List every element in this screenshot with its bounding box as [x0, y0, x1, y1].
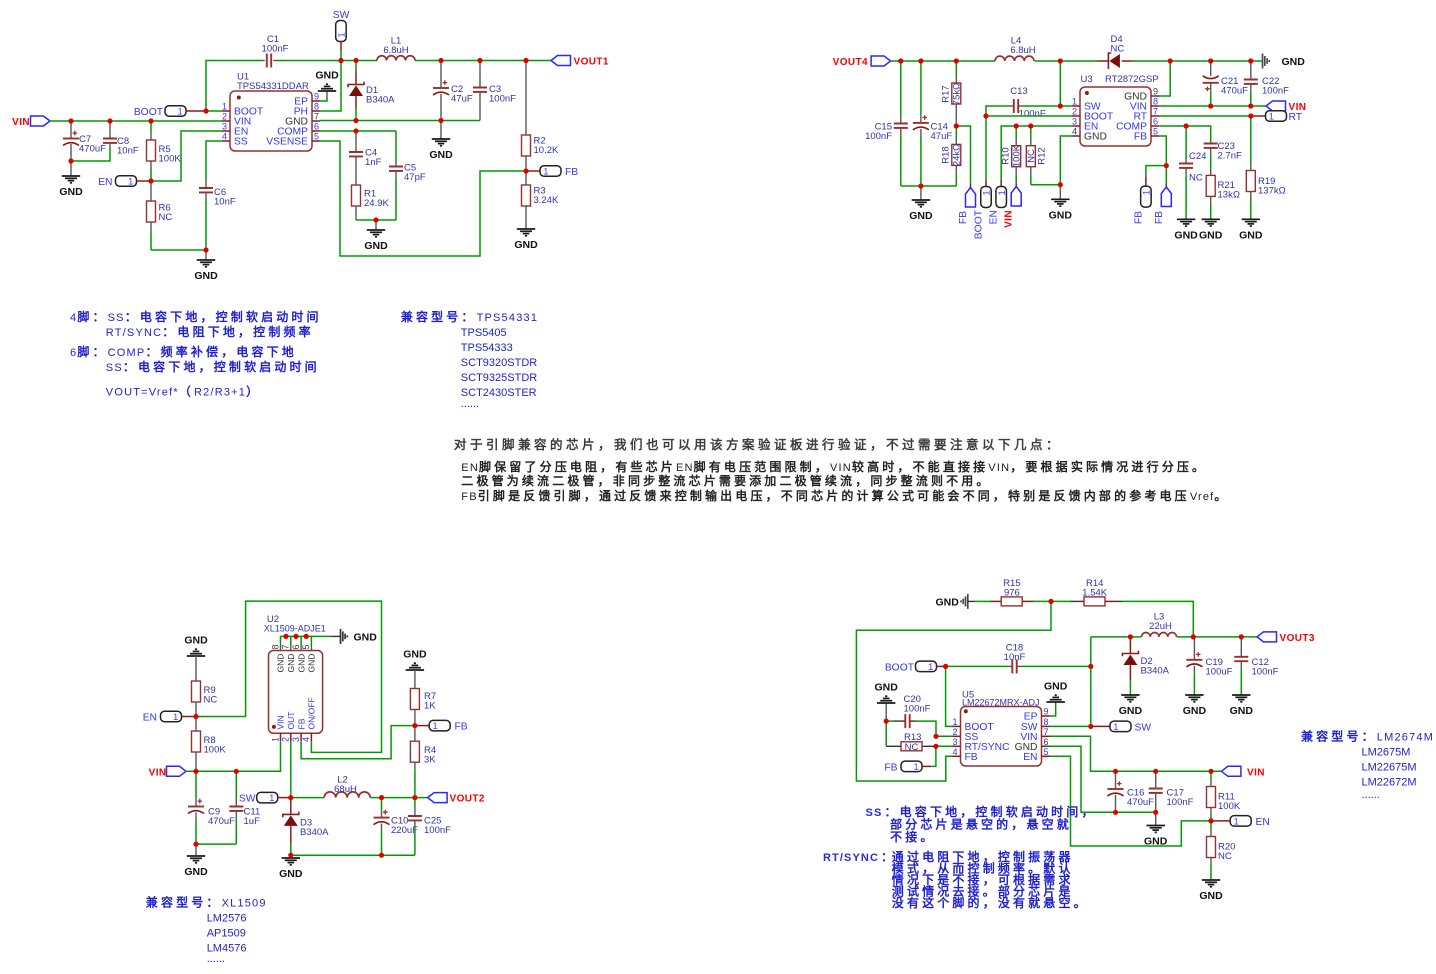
svg-text:VIN: VIN	[1247, 767, 1265, 778]
svg-text:SW: SW	[333, 10, 350, 21]
svg-text:GND: GND	[276, 654, 286, 673]
svg-text:对于引脚兼容的芯片，我们也可以用该方案验证板进行验证，不过需: 对于引脚兼容的芯片，我们也可以用该方案验证板进行验证，不过需要注意以下几点：	[454, 437, 1062, 452]
net flag VOUT2	[428, 793, 448, 803]
junction L3-R14	[1191, 634, 1196, 639]
svg-text:GND: GND	[59, 186, 83, 198]
svg-text:LM2576: LM2576	[207, 913, 247, 925]
wire pin stub top	[290, 644, 292, 651]
resistor R20 NC	[1210, 821, 1212, 829]
svg-text:100nF: 100nF	[489, 94, 516, 105]
capacitor C5 47pF	[395, 131, 397, 162]
svg-text:1: 1	[128, 177, 133, 188]
ground GND under R20	[1202, 879, 1220, 881]
svg-text:5: 5	[301, 644, 311, 649]
svg-text:68uH: 68uH	[334, 784, 357, 795]
svg-text:6: 6	[1044, 737, 1049, 747]
resistor R1 24.9K	[352, 185, 361, 206]
svg-text:1: 1	[1233, 817, 1238, 828]
svg-text:100K: 100K	[1012, 144, 1023, 167]
ground GND under C9	[195, 844, 197, 856]
svg-text:FB引脚是反馈引脚，通过反馈来控制输出电压，不同芯片的计算公: FB引脚是反馈引脚，通过反馈来控制输出电压，不同芯片的计算公式可能会不同，特别是…	[461, 488, 1229, 503]
port BOOT (vertical)	[985, 180, 987, 187]
junction BOOT	[943, 664, 948, 669]
diode D4 NC horizontal	[1097, 60, 1108, 62]
IC U3 RT2872GSP	[1080, 87, 1151, 146]
junction C16	[1113, 769, 1118, 774]
wire C13 left to BOOT port	[986, 106, 1010, 180]
svg-text:BOOT: BOOT	[974, 209, 985, 239]
svg-text:SS：电容下地，控制软启动时间: SS：电容下地，控制软启动时间	[106, 359, 320, 374]
svg-text:470uF: 470uF	[79, 144, 106, 155]
resistor R2 10.2K	[525, 61, 527, 136]
wire R14 to L3 right	[1122, 601, 1193, 637]
svg-text:10nF: 10nF	[1004, 652, 1026, 663]
svg-text:LM2675M: LM2675M	[1362, 746, 1411, 758]
wire pin3 to R13	[936, 745, 953, 747]
svg-text:1: 1	[1072, 97, 1077, 107]
pin 8 SW	[1042, 725, 1050, 727]
svg-text:SW: SW	[1135, 722, 1152, 733]
svg-text:8: 8	[270, 644, 280, 649]
wire EN loop to ON/OFF pin4	[196, 601, 382, 752]
wire pin2 SS	[936, 735, 953, 737]
pin 1 BOOT	[222, 110, 230, 112]
wire VIN net pin8	[1159, 105, 1266, 107]
svg-text:976: 976	[1004, 588, 1020, 599]
svg-text:GND: GND	[354, 631, 378, 643]
svg-text:SCT9320STDR: SCT9320STDR	[461, 357, 537, 369]
junction EN	[1208, 818, 1213, 823]
pin 3 RT/SYNC	[953, 745, 961, 747]
capacitor C17 100nF	[1155, 771, 1157, 788]
svg-text:TPS5405: TPS5405	[461, 327, 507, 339]
svg-text:9: 9	[1153, 87, 1158, 97]
wire R13 left to C20	[885, 721, 887, 746]
net flag FB (up)	[970, 184, 972, 188]
wire top GND pins rail	[280, 644, 282, 651]
svg-text:100nF: 100nF	[1252, 667, 1279, 678]
svg-text:1: 1	[1142, 190, 1153, 195]
svg-text:2: 2	[281, 737, 291, 742]
svg-text:RT/SYNC：电阻下地，控制频率: RT/SYNC：电阻下地，控制频率	[106, 324, 314, 339]
junction SW	[288, 795, 293, 800]
svg-text:B340A: B340A	[1141, 666, 1170, 677]
junction C24	[1184, 123, 1189, 128]
net flag VIN right	[1266, 101, 1286, 111]
wire RT net pin7	[1159, 115, 1251, 117]
pin 4 ON/OFF	[310, 733, 312, 741]
svg-text:1: 1	[270, 737, 280, 742]
junction C14	[918, 58, 923, 63]
svg-text:RT: RT	[1289, 112, 1303, 123]
ground GND	[1059, 185, 1061, 200]
svg-text:1: 1	[543, 167, 548, 178]
svg-text:1K: 1K	[424, 701, 436, 712]
svg-text:100nF: 100nF	[262, 44, 289, 55]
svg-text:8: 8	[1044, 717, 1049, 727]
junction C17	[1153, 769, 1158, 774]
svg-text:LM22675M: LM22675M	[1362, 761, 1417, 773]
wire FB branch	[956, 126, 970, 184]
svg-text:VSENSE: VSENSE	[266, 137, 308, 148]
svg-text:不接。: 不接。	[890, 829, 935, 844]
svg-text:4脚：SS：电容下地，控制软启动时间: 4脚：SS：电容下地，控制软启动时间	[70, 309, 322, 324]
svg-text:NC: NC	[1111, 44, 1125, 55]
svg-text:4: 4	[301, 737, 311, 742]
pin 1 SW	[1072, 105, 1080, 107]
port FB	[415, 725, 429, 727]
junction pin6	[293, 634, 298, 639]
wire pin9 GND riser	[1159, 61, 1170, 96]
capacitor C24 NC	[1185, 126, 1187, 159]
wire L4 to D4	[1035, 60, 1098, 62]
ground GND under R3	[517, 228, 535, 230]
junction	[1168, 58, 1173, 63]
junction R15-R14	[1048, 599, 1053, 604]
resistor R11 100K	[1210, 771, 1212, 779]
svg-text:6: 6	[291, 644, 301, 649]
ground GND above C20 (flipped)	[885, 703, 887, 721]
svg-text:二极管为续流二极管，非同步整流芯片需要添加二极管续流，同步整: 二极管为续流二极管，非同步整流芯片需要添加二极管续流，同步整流则不用。	[461, 473, 991, 488]
svg-text:GND: GND	[1230, 705, 1254, 717]
svg-text:EN: EN	[989, 210, 1000, 224]
svg-text:100nF: 100nF	[424, 825, 451, 836]
pin 3 FB	[300, 733, 302, 741]
wire pin3 EN	[1001, 126, 1072, 180]
junction C10 bottom	[379, 853, 384, 858]
svg-text:VIN: VIN	[1004, 210, 1015, 228]
junction FB	[1164, 163, 1169, 168]
wire R1/C5 bottom	[356, 219, 396, 221]
junction SW-D1	[353, 58, 358, 63]
svg-text:6: 6	[1153, 117, 1158, 127]
net flag VOUT1	[551, 56, 571, 66]
port FB	[526, 170, 540, 172]
resistor R12 NC	[1030, 126, 1032, 138]
wire VIN rail	[50, 120, 222, 122]
svg-text:BOOT: BOOT	[885, 662, 915, 673]
ground GND under C2	[440, 121, 442, 140]
svg-text:6脚：COMP：频率补偿，电容下地: 6脚：COMP：频率补偿，电容下地	[70, 344, 297, 359]
svg-text:GND: GND	[296, 654, 306, 673]
ground GND under D3	[290, 855, 292, 858]
svg-text:VOUT=Vref*（R2/R3+1）: VOUT=Vref*（R2/R3+1）	[106, 384, 261, 399]
svg-text:EN脚保留了分压电阻，有些芯片EN脚有电压范围限制，VIN较: EN脚保留了分压电阻，有些芯片EN脚有电压范围限制，VIN较高时，不能直接接VI…	[461, 459, 1207, 474]
svg-text:1: 1	[952, 717, 957, 727]
junction SW riser	[1058, 58, 1063, 63]
resistor R7 1K	[414, 670, 416, 689]
capacitor C21 470uF polarized flipped	[1210, 61, 1212, 76]
port SW	[1091, 725, 1110, 727]
svg-text:VOUT4: VOUT4	[833, 57, 868, 68]
svg-text:GND: GND	[1084, 132, 1107, 143]
junction D3 bottom	[288, 853, 293, 858]
svg-text:470uF: 470uF	[1127, 797, 1154, 808]
junction D1 bottom	[353, 118, 358, 123]
svg-text:1: 1	[1113, 722, 1118, 733]
net flag VOUT4	[871, 56, 891, 66]
pin 1 VIN	[280, 733, 282, 741]
resistor R18 24kOhm	[955, 126, 957, 137]
svg-text:ON/OFF: ON/OFF	[307, 697, 317, 729]
svg-text:2: 2	[222, 112, 227, 122]
junction gnd	[203, 247, 208, 252]
junction C20	[884, 719, 889, 724]
svg-text:FB: FB	[455, 722, 468, 733]
svg-text:GND: GND	[364, 240, 388, 252]
svg-text:4: 4	[222, 132, 227, 142]
capacitor C4 1nF	[355, 131, 357, 152]
svg-text:GND: GND	[935, 596, 959, 608]
resistor R5 100K	[150, 121, 152, 133]
svg-text:100uF: 100uF	[1206, 667, 1233, 678]
pin 7 RT	[1151, 115, 1159, 117]
svg-text:1: 1	[177, 107, 182, 118]
svg-text:GND: GND	[1119, 705, 1143, 717]
svg-text:EN: EN	[143, 713, 157, 724]
wire VIN pin7	[1050, 736, 1222, 771]
svg-text:7: 7	[314, 112, 319, 122]
resistor R21 13kOhm	[1206, 175, 1215, 196]
pin 1 BOOT	[953, 725, 961, 727]
junction EN	[193, 714, 198, 719]
junction C10	[379, 795, 384, 800]
svg-text:GND: GND	[1044, 681, 1068, 693]
svg-text:7: 7	[1153, 107, 1158, 117]
svg-text:2.7nF: 2.7nF	[1218, 151, 1242, 162]
diode D3 B340A	[290, 798, 292, 815]
svg-text:100nF: 100nF	[1167, 797, 1194, 808]
svg-text:220uF: 220uF	[391, 825, 418, 836]
inductor L3 22uH	[1142, 633, 1177, 637]
svg-text:C24: C24	[1189, 151, 1206, 162]
svg-text:2: 2	[1072, 107, 1077, 117]
junction SW-port	[338, 58, 343, 63]
svg-text:GND: GND	[875, 682, 899, 694]
ground GND under D2	[1129, 680, 1131, 695]
wire EN net pin5	[1050, 756, 1212, 846]
capacitor C2 47uF polarized	[440, 61, 442, 89]
pin 8 PH	[312, 110, 320, 112]
junction COMP-C4	[353, 128, 358, 133]
svg-text:100nF: 100nF	[1262, 86, 1289, 97]
svg-text:VIN: VIN	[12, 117, 30, 128]
svg-text:XL1509-ADJE1: XL1509-ADJE1	[264, 624, 326, 634]
svg-text:OUT: OUT	[286, 712, 296, 730]
svg-text:6.8uH: 6.8uH	[1010, 45, 1035, 56]
pin 2 BOOT	[1072, 115, 1080, 117]
svg-text:470uF: 470uF	[208, 816, 235, 827]
junction R10	[1014, 123, 1019, 128]
capacitor C25 100nF	[414, 798, 416, 808]
svg-text:EN: EN	[1023, 752, 1037, 763]
ground GND under C24	[1185, 210, 1187, 219]
svg-text:FB: FB	[296, 718, 306, 729]
pin 7 GND	[312, 120, 320, 122]
capacitor C22 100nF	[1250, 61, 1252, 80]
svg-text:GND: GND	[403, 649, 427, 661]
resistor R17 75kOhm	[955, 61, 957, 75]
junction FB	[412, 723, 417, 728]
ground GND under C17	[1155, 812, 1157, 825]
net flag VIN (up)	[1015, 183, 1017, 187]
svg-text:NC: NC	[159, 212, 173, 223]
capacitor C11 1uF	[235, 771, 237, 798]
wire VSENSE to FB	[320, 141, 526, 256]
junction C21 bottom	[1208, 103, 1213, 108]
svg-text:FB: FB	[1133, 211, 1144, 224]
resistor R13 NC horizontal	[922, 745, 936, 747]
wire BOOT to pin1	[946, 666, 953, 726]
wire COMP node	[320, 130, 396, 132]
svg-text:100nF: 100nF	[865, 131, 892, 142]
svg-text:R12: R12	[1037, 147, 1048, 164]
svg-text:FB: FB	[1154, 211, 1165, 224]
svg-text:TPS54331DDAR: TPS54331DDAR	[237, 81, 309, 92]
junction	[1058, 182, 1063, 187]
svg-text:1: 1	[982, 190, 993, 195]
wire GND rail pin7	[320, 120, 480, 122]
pin 3 EN	[1072, 125, 1080, 127]
pin 9 EP	[312, 100, 320, 102]
pin 5 FB	[1151, 135, 1159, 137]
net flag FB (up) right	[1165, 184, 1167, 187]
svg-text:GND: GND	[286, 654, 296, 673]
ground GND under R21	[1202, 218, 1220, 220]
capacitor C18 10nF horizontal	[946, 665, 1008, 667]
net flag VOUT3	[1257, 632, 1277, 642]
svg-text:3: 3	[1072, 117, 1077, 127]
inductor L4 6.8uH	[995, 56, 1034, 61]
svg-text:24kΩ: 24kΩ	[952, 144, 963, 166]
junction C16 bottom	[1113, 810, 1118, 815]
capacitor C9 470uF polarized	[195, 771, 197, 798]
svg-text:1: 1	[222, 102, 227, 112]
net flag VIN	[167, 766, 187, 776]
net flag VIN	[31, 116, 51, 126]
wire SW rail	[291, 797, 324, 799]
resistor R10 100K	[1015, 126, 1017, 138]
svg-text:GND: GND	[514, 239, 538, 251]
junction pin7	[283, 634, 288, 639]
svg-text:SCT9325STDR: SCT9325STDR	[461, 372, 537, 384]
wire pin stub top	[310, 644, 312, 651]
svg-text:LM22672MRX-ADJ: LM22672MRX-ADJ	[962, 698, 1040, 708]
capacitor C16 470uF polarized	[1115, 771, 1117, 789]
port RT	[1251, 115, 1266, 117]
svg-text:VIN: VIN	[149, 767, 167, 778]
wire pin2 BOOT	[986, 115, 1072, 117]
net flag VIN	[1221, 766, 1241, 776]
junction R17-R18	[954, 123, 959, 128]
junction C11	[234, 769, 239, 774]
svg-text:24.9K: 24.9K	[364, 198, 389, 209]
svg-text:兼容型号：TPS54331: 兼容型号：TPS54331	[400, 309, 538, 324]
svg-text:10nF: 10nF	[117, 146, 139, 157]
svg-text:470uF: 470uF	[1221, 86, 1248, 97]
svg-text:13kΩ: 13kΩ	[1218, 190, 1240, 201]
wire pin6 GND to C16/C17	[1050, 746, 1156, 812]
svg-text:7: 7	[281, 644, 291, 649]
svg-text:......: ......	[461, 398, 479, 410]
svg-text:GND: GND	[1199, 229, 1223, 241]
wire SW vertical	[1090, 637, 1092, 727]
svg-text:AP1509: AP1509	[207, 928, 246, 940]
capacitor C20 100nF horizontal	[886, 720, 893, 722]
junction SW port	[1088, 724, 1093, 729]
svg-text:没有这个脚的，没有就悬空。: 没有这个脚的，没有就悬空。	[892, 895, 1089, 910]
junction BOOT pin2	[983, 113, 988, 118]
svg-text:8: 8	[1153, 97, 1158, 107]
junction	[373, 217, 378, 222]
junction R11	[1208, 769, 1213, 774]
junction VIN-C7	[68, 118, 73, 123]
svg-text:47uF: 47uF	[451, 94, 473, 105]
ground GND above R7 (flipped)	[406, 669, 424, 671]
wire bottom rail to gnd	[901, 185, 957, 187]
svg-text:R10: R10	[1000, 147, 1011, 164]
junction R17	[954, 58, 959, 63]
svg-text:4: 4	[1072, 127, 1077, 137]
svg-text:GND: GND	[1282, 56, 1306, 68]
svg-text:VOUT1: VOUT1	[574, 57, 609, 68]
resistor R14 1.54K	[1051, 600, 1070, 602]
capacitor C7 470uF polarized	[70, 121, 72, 139]
junction R19	[1248, 113, 1253, 118]
svg-text:4: 4	[952, 747, 957, 757]
svg-text:GND: GND	[184, 635, 208, 647]
svg-text:3: 3	[291, 737, 301, 742]
junction SW-C13	[1058, 103, 1063, 108]
wire C1 to SW node	[276, 60, 377, 62]
ground GND under C6	[205, 250, 207, 260]
wire R12 to gnd	[1031, 184, 1061, 186]
wire EN to pin3	[151, 131, 222, 181]
svg-text:1: 1	[913, 762, 918, 773]
junction R13	[933, 744, 938, 749]
svg-text:GND: GND	[1049, 209, 1073, 221]
junction	[193, 842, 198, 847]
svg-text:R17: R17	[941, 85, 952, 102]
wire COMP net pin6	[1159, 126, 1211, 144]
pin 2 VIN	[222, 120, 230, 122]
wire L1 to VOUT1	[415, 60, 551, 62]
svg-text:3.24K: 3.24K	[534, 195, 559, 206]
svg-text:GND: GND	[1183, 705, 1207, 717]
svg-text:100K: 100K	[1218, 801, 1241, 812]
junction C22 top	[1248, 58, 1253, 63]
svg-text:EN: EN	[1256, 817, 1270, 828]
svg-text:BOOT: BOOT	[134, 107, 164, 118]
wire pin2 OUT down	[290, 741, 292, 797]
svg-text:GND: GND	[184, 866, 208, 878]
svg-text:9: 9	[314, 92, 319, 102]
wire FB net pin3	[301, 726, 415, 759]
wire pin4 GND	[1060, 136, 1072, 185]
inductor L1 6.8uH	[377, 56, 415, 61]
svg-text:C13: C13	[1010, 86, 1027, 97]
svg-text:VOUT2: VOUT2	[450, 794, 485, 805]
svg-text:GND: GND	[1174, 229, 1198, 241]
wire C8 to C7 bottom	[71, 147, 110, 161]
svg-text:1nF: 1nF	[365, 157, 382, 168]
ground GND	[920, 186, 922, 200]
svg-text:5: 5	[1153, 127, 1158, 137]
svg-text:75kΩ: 75kΩ	[952, 83, 963, 105]
capacitor C10 220uF polarized	[381, 798, 383, 810]
svg-text:3: 3	[222, 122, 227, 132]
capacitor C15 100nF	[900, 61, 902, 116]
